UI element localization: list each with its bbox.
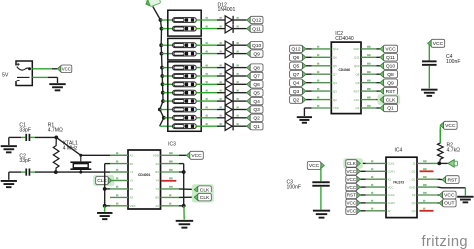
svg-text:VCC: VCC [309, 163, 320, 169]
diodes D1-D12 (1N4001) [225, 16, 232, 24]
wire IC2 to CLK flag [377, 99, 380, 101]
node flag Q1 (IC2 right) [380, 105, 384, 111]
svg-text:Q1: Q1 [356, 106, 360, 110]
junction A3 [182, 204, 186, 208]
ground (C3) [313, 210, 330, 212]
red unrouted stub Y4 [161, 180, 176, 182]
wire switch 11 to diode [196, 117, 217, 119]
wire VCC to R2 [439, 127, 441, 144]
switch group box S1 [168, 10, 201, 36]
svg-text:Q1: Q1 [412, 170, 416, 174]
svg-text:CD4040: CD4040 [335, 36, 354, 42]
switch row 2 [173, 26, 197, 31]
wire diode to Q1 flag [234, 125, 247, 127]
wire B3 to CLK flag [179, 196, 194, 198]
wire diode to Q7 flag [234, 75, 247, 77]
resistor R2 (4.7k, vertical zigzag) [438, 129, 444, 163]
wire J1 to R2/flag [438, 162, 448, 164]
svg-text:Q8: Q8 [253, 65, 260, 71]
wire Q6 flag to IC2 [306, 56, 312, 58]
svg-text:VCC: VCC [385, 47, 396, 53]
svg-text:RST: RST [447, 177, 457, 183]
svg-text:CLK: CLK [97, 178, 107, 184]
node flag Q5 [247, 90, 251, 96]
svg-text:Q11: Q11 [252, 26, 261, 32]
red unrouted stub Q1 [420, 170, 434, 172]
wire VCC to C4 [428, 44, 430, 60]
VCC flag (matrix bus, selected, clipped at top) [143, 0, 161, 8]
node flag Q9 (IC2 right) [380, 80, 384, 86]
wire diode to Q10 flag [234, 44, 247, 46]
capacitor C4 [422, 60, 437, 62]
wire switch 3 to diode [196, 44, 217, 46]
wire CLK flag to IC3 [112, 180, 128, 182]
wire pin5 stub [105, 188, 110, 190]
VCC flag (supply +) [57, 66, 61, 72]
node flag Q9 [247, 51, 251, 57]
svg-text:4.7kΩ: 4.7kΩ [447, 148, 461, 154]
wire VCC flag to IC4 pin6 [360, 202, 365, 204]
svg-text:B1: B1 [130, 162, 134, 166]
node flag RST (IC4 left) [357, 192, 361, 198]
wire C4 to ground [428, 66, 430, 89]
ground (C4) [421, 89, 437, 91]
node flag CLK (IC4 left) [343, 158, 363, 169]
switch row 4 [173, 51, 197, 56]
wire Q1bar to RST flag [438, 178, 442, 180]
IC2 body (CD4040) [331, 42, 361, 114]
wire C1 right to node [30, 136, 35, 138]
wire IC2 to Q10 flag [377, 65, 380, 67]
switch row 10 [173, 107, 197, 112]
wire VCC flag to IC4 pin3 [360, 178, 365, 180]
svg-text:Q11: Q11 [386, 55, 395, 61]
ground (C2) [1, 180, 17, 182]
svg-text:Q5: Q5 [293, 64, 300, 70]
wire switch 8 to diode [196, 92, 217, 94]
node flag Q12 [247, 17, 251, 23]
svg-text:74LS73: 74LS73 [393, 180, 404, 184]
svg-text:A1: A1 [130, 154, 134, 158]
svg-text:B4: B4 [155, 170, 159, 174]
svg-text:VCC: VCC [346, 185, 356, 190]
junction B4 [182, 170, 186, 174]
svg-text:Q1: Q1 [387, 106, 394, 112]
svg-text:Q4: Q4 [253, 99, 260, 105]
svg-text:5V: 5V [2, 73, 9, 79]
svg-text:Q3: Q3 [293, 89, 300, 95]
svg-text:Q5: Q5 [253, 90, 260, 96]
wire A3 to bus [179, 205, 184, 207]
CLK flag (IC3 Y3) [192, 184, 214, 195]
svg-text:Q6: Q6 [293, 55, 300, 61]
switch row 6 [173, 74, 197, 79]
wire Q2 flag to IC2 [306, 99, 312, 101]
wire IC2 to VCC flag [377, 48, 380, 50]
IC4 body (74LS73) [386, 157, 417, 217]
svg-text:Y1: Y1 [130, 170, 134, 174]
svg-text:CLK: CLK [354, 98, 360, 102]
wire VCC flag to IC4 pin4 [360, 186, 365, 188]
svg-text:Q2: Q2 [253, 116, 260, 122]
node flag Q4 (IC2 left) [302, 80, 306, 86]
node flag VCC (IC4 left) [357, 184, 361, 190]
switch row 12 [173, 124, 197, 129]
svg-text:Q4: Q4 [333, 81, 337, 85]
svg-text:VDD: VDD [153, 154, 159, 158]
node flag Q3 (IC2 left) [302, 88, 306, 94]
node flag Q1 [247, 123, 251, 129]
wire bottom net C2-R1-XTAL to IC3 pin [30, 171, 35, 173]
svg-text:VCC: VCC [346, 169, 356, 174]
svg-text:RST: RST [354, 89, 360, 93]
crystal XTAL1 [80, 155, 82, 161]
svg-text:A4: A4 [155, 162, 159, 166]
junction on + terminal [28, 67, 31, 70]
svg-text:Q10: Q10 [354, 64, 360, 68]
wire VCC flag to bus [153, 7, 161, 21]
wire IC2 to Q11 flag [377, 56, 380, 58]
switch row 11 [173, 115, 197, 120]
wire Q3 flag to IC2 [306, 90, 312, 92]
svg-text:Q8: Q8 [387, 72, 394, 78]
svg-text:B2: B2 [130, 187, 134, 191]
svg-text:Q2: Q2 [412, 209, 416, 213]
wire C3 to ground [320, 187, 322, 210]
node flag Q10 [247, 42, 251, 48]
wire diagonal R1 to XTAL top [56, 137, 81, 155]
svg-text:VCC: VCC [445, 123, 456, 129]
node C2-R1 junction [54, 170, 58, 174]
svg-text:Y2: Y2 [130, 179, 134, 183]
node XTAL bottom junction [79, 171, 82, 174]
node flag Q12 (IC2 left) [302, 46, 306, 52]
svg-text:Q7: Q7 [253, 74, 260, 80]
svg-text:Q7: Q7 [333, 72, 337, 76]
svg-text:CLK2: CLK2 [388, 193, 395, 197]
node flag Q3 [247, 106, 251, 112]
node flag Q7 [247, 73, 251, 79]
junction J1-R2 [437, 162, 441, 166]
svg-text:4 MHz: 4 MHz [63, 145, 78, 151]
wire diode to Q9 flag [234, 53, 247, 55]
wire diode to Q5 flag [234, 92, 247, 94]
wire switch 7 to diode [196, 83, 217, 85]
node flag Q8 (IC2 right) [380, 71, 384, 77]
wire IC2 to Q1 flag [377, 107, 380, 109]
wires bus to switches [161, 19, 173, 21]
wire Q2 to OUT flag [438, 202, 439, 204]
VCC flag (C4) [428, 40, 432, 46]
svg-text:Q11: Q11 [354, 56, 360, 60]
node flag Q6 [247, 81, 251, 87]
node flag Q4 [247, 98, 251, 104]
wire K2 to VCC flag [438, 194, 439, 196]
svg-text:CD4001: CD4001 [138, 173, 151, 177]
svg-text:VCC: VCC [62, 67, 71, 72]
ground (IC2 VSS) [297, 116, 312, 118]
svg-text:VSS: VSS [130, 204, 136, 208]
svg-text:VDD: VDD [353, 47, 359, 51]
node flag Q6 (IC2 left) [302, 54, 306, 60]
svg-text:J2: J2 [388, 209, 391, 213]
switch row 1 [173, 18, 197, 23]
svg-text:CLK: CLK [200, 195, 210, 201]
node flag Q2 [247, 115, 251, 121]
svg-text:VCC: VCC [346, 209, 356, 214]
wire switch 1 to diode [196, 19, 217, 21]
node flag Q5 (IC2 left) [302, 63, 306, 69]
wire GND to ground [438, 186, 442, 189]
junction IC3 pin7 [103, 204, 107, 208]
wire diode to Q12 flag [234, 19, 247, 21]
svg-text:1N4001: 1N4001 [218, 7, 236, 13]
svg-text:CLK1: CLK1 [388, 162, 395, 166]
svg-text:Q7: Q7 [293, 72, 300, 78]
wire diode to Q4 flag [234, 100, 247, 102]
svg-text:VSS: VSS [333, 106, 339, 110]
power supply PS1 body [16, 61, 32, 86]
switch group box S2 [168, 38, 201, 60]
wire VCC flag to IC4 pin7 [360, 210, 365, 212]
switch row 9 [173, 99, 197, 104]
bus wire (VCC rail down the switches) [160, 20, 164, 126]
svg-text:Q5: Q5 [333, 64, 337, 68]
wire switch 10 to diode [196, 109, 217, 111]
svg-text:Q10: Q10 [386, 64, 396, 70]
svg-text:VCC: VCC [388, 185, 394, 189]
svg-text:IC3: IC3 [168, 141, 176, 147]
svg-text:VCC: VCC [346, 201, 356, 206]
wire to ground (IC3 right) [183, 206, 185, 220]
wire VSS to ground [304, 107, 311, 109]
svg-text:4.7MΩ: 4.7MΩ [48, 128, 63, 134]
svg-text:100nF: 100nF [287, 185, 301, 191]
svg-text:Q1: Q1 [412, 177, 416, 181]
wire switch 9 to diode [196, 100, 217, 102]
svg-text:K1: K1 [388, 177, 392, 181]
ground (IC3 left) [97, 212, 113, 214]
IC4 pin stubs [366, 162, 387, 164]
svg-text:Q2: Q2 [333, 98, 337, 102]
svg-text:Q9: Q9 [387, 80, 394, 86]
wire - to ground [32, 76, 48, 78]
switch row 5 [173, 65, 197, 70]
op-amp IC3 body (CD4001) [128, 150, 161, 209]
svg-text:Q12: Q12 [333, 47, 339, 51]
junction IC3 pin5 [103, 187, 107, 191]
node flag VCC (IC4 left) [357, 208, 361, 214]
wire + to VCC [32, 68, 52, 70]
wire diode to Q2 flag [234, 117, 247, 119]
wire diode to Q6 flag [234, 83, 247, 85]
OUT flag (IC4 Q2) [439, 200, 443, 206]
svg-text:Q8: Q8 [356, 72, 360, 76]
ground (IC3 right) [176, 220, 194, 222]
capacitor C1 [25, 134, 27, 141]
wire VCC flag to IC4 pin2 [360, 170, 365, 172]
node flag VCC (IC4 left) [357, 176, 361, 182]
wire RST flag to IC4 pin5 [360, 194, 365, 196]
IC3 pin stubs [110, 154, 128, 156]
IC2 pin stubs [312, 48, 332, 50]
wire Y3 to CLK flag [179, 188, 194, 191]
switch group box S3 [168, 62, 201, 132]
svg-text:Q9: Q9 [356, 81, 360, 85]
wire switch 2 to diode [196, 28, 217, 30]
switch row 8 [173, 90, 197, 95]
node flag RST (IC2 right) [380, 88, 384, 94]
svg-text:B3: B3 [155, 196, 159, 200]
node flag VCC (IC4 left) [357, 168, 361, 174]
svg-text:33pF: 33pF [19, 128, 31, 134]
svg-text:A2: A2 [130, 196, 134, 200]
svg-text:33pF: 33pF [19, 158, 31, 164]
svg-text:VCC: VCC [346, 177, 356, 182]
wire VCC to C3 [320, 167, 322, 182]
svg-text:CD4040: CD4040 [338, 68, 350, 72]
wire diode to Q8 flag [234, 67, 247, 69]
svg-text:Q6: Q6 [253, 82, 260, 88]
svg-text:Q6: Q6 [333, 56, 337, 60]
svg-text:Y3: Y3 [155, 187, 159, 191]
svg-text:GND: GND [409, 185, 415, 189]
wire C2 left to ground [21, 171, 26, 173]
svg-text:OUT: OUT [444, 201, 454, 207]
bus junction dots [159, 18, 163, 22]
wire switch 4 to diode [196, 53, 217, 55]
svg-text:CLK: CLK [347, 161, 357, 166]
wire CLK flag to IC4 pin1 [360, 162, 365, 164]
switch row 7 [173, 82, 197, 87]
CLK flag (to IC3 pin 6, selected) [93, 175, 114, 186]
node flag Q10 (IC2 right) [380, 63, 384, 69]
wire VDD to VCC [179, 154, 186, 156]
wire A4 to bus [179, 163, 184, 165]
wire Q4 flag to IC2 [306, 82, 312, 84]
svg-text:Q1: Q1 [253, 124, 260, 130]
capacitor C3 [312, 181, 329, 183]
wire IC2 to Q9 flag [377, 82, 380, 84]
svg-text:CLR2: CLR2 [388, 201, 396, 205]
red unrouted stub Q2bar [420, 210, 434, 212]
node flag Q11 (IC2 right) [380, 54, 384, 60]
wire IC3 pin2 bus [105, 163, 110, 165]
empty net flag (J1) [448, 160, 454, 168]
wire pin7 stub [105, 205, 110, 207]
wire IC2 to Q8 flag [377, 73, 380, 75]
wire switch 12 to diode [196, 125, 217, 127]
svg-text:Q10: Q10 [252, 43, 262, 49]
svg-text:CLR1: CLR1 [388, 170, 396, 174]
svg-text:Q3: Q3 [333, 89, 337, 93]
VCC flag (IC3 VDD) [186, 152, 190, 158]
wire IC2 to RST flag [377, 90, 380, 92]
svg-text:Q12: Q12 [252, 18, 262, 24]
svg-text:VCC: VCC [191, 153, 202, 159]
svg-text:Q4: Q4 [293, 80, 300, 86]
wire Q12 flag to IC2 [306, 48, 312, 50]
ground (supply -) [49, 83, 65, 85]
svg-text:Q3: Q3 [253, 107, 260, 113]
RST flag (IC4) [442, 177, 446, 183]
svg-text:VCC: VCC [444, 193, 455, 199]
VCC flag (C3) [321, 162, 325, 168]
svg-text:K2: K2 [412, 193, 416, 197]
svg-text:A3: A3 [155, 204, 159, 208]
svg-text:J1: J1 [412, 162, 415, 166]
CLK flag (IC3 B3) [192, 192, 214, 203]
node flag Q8 [247, 65, 251, 71]
capacitor C2 [25, 169, 27, 176]
wire to ground (IC3 left) [104, 206, 106, 212]
node flag Q2 (IC2 left) [302, 97, 306, 103]
node flag VCC (IC4 left) [357, 200, 361, 206]
svg-text:Y4: Y4 [155, 179, 159, 183]
wire diode to Q11 flag [234, 28, 247, 30]
svg-text:Q12: Q12 [291, 47, 301, 53]
svg-text:fritzing: fritzing [422, 234, 468, 249]
svg-text:IC4: IC4 [395, 148, 403, 154]
switch row 3 [173, 43, 197, 48]
svg-text:VCC: VCC [433, 41, 444, 47]
wire XTAL top to IC3 pin1 [81, 154, 110, 156]
wire C1 left to ground [21, 136, 26, 138]
ground (C1) [1, 145, 17, 147]
node XTAL top junction [79, 154, 82, 157]
node C1-R1 junction [54, 136, 58, 140]
ground (IC4 GND) [457, 196, 473, 198]
wire B4 to bus [179, 171, 184, 173]
node flag CLK (IC2 right) [378, 94, 401, 105]
svg-text:RST: RST [386, 89, 396, 95]
resistor R1 (4.7M, vertical zigzag) [53, 137, 59, 172]
node flag Q11 [247, 26, 251, 32]
node flag VCC (IC2 right) [380, 46, 384, 52]
wire switch 5 to diode [196, 67, 217, 69]
VCC flag (R2 top) [440, 122, 444, 128]
wire switch 6 to diode [196, 75, 217, 77]
svg-text:Q9: Q9 [253, 51, 260, 57]
wire diode to Q3 flag [234, 109, 247, 111]
svg-text:CLK: CLK [386, 97, 396, 103]
node flag Q7 (IC2 left) [302, 71, 306, 77]
VCC flag (IC4 K2) [439, 192, 443, 198]
svg-text:100nF: 100nF [446, 59, 460, 65]
svg-text:Q2: Q2 [293, 97, 300, 103]
wire Q5 flag to IC2 [306, 65, 312, 67]
svg-text:Q2: Q2 [412, 201, 416, 205]
svg-text:RST: RST [347, 193, 356, 198]
wire Q7 flag to IC2 [306, 73, 312, 75]
